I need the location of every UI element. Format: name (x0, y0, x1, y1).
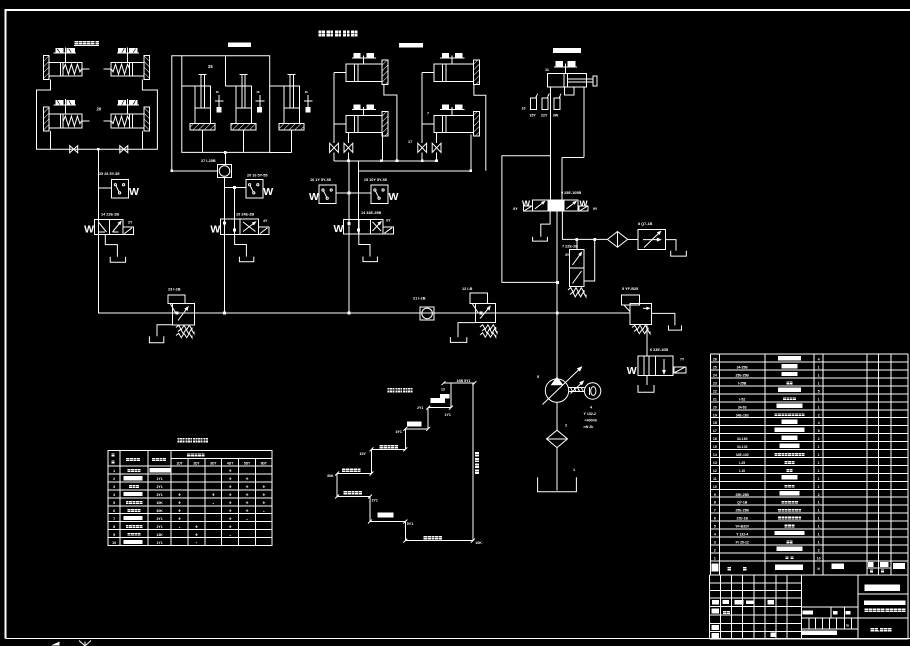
svg-text:2Y1: 2Y1 (156, 525, 162, 529)
svg-text:nN 2k: nN 2k (584, 425, 594, 429)
svg-text:1Y1: 1Y1 (156, 541, 162, 545)
svg-text:21 I-2B: 21 I-2B (413, 297, 426, 301)
svg-text:6: 6 (714, 517, 716, 521)
svg-text:16 1Y 5Y-55: 16 1Y 5Y-55 (310, 178, 331, 182)
svg-text:W: W (627, 365, 637, 377)
svg-text:W: W (580, 199, 589, 209)
svg-text:13K: 13K (156, 533, 163, 537)
svg-text:1Y1: 1Y1 (156, 477, 162, 481)
svg-text:8Y: 8Y (513, 207, 518, 211)
svg-text:1: 1 (818, 509, 820, 513)
svg-text:21: 21 (713, 397, 717, 401)
svg-text:3Y1: 3Y1 (396, 430, 402, 434)
svg-text:+: + (262, 500, 265, 506)
svg-text:2: 2 (113, 477, 115, 481)
svg-text:30K: 30K (327, 474, 334, 478)
svg-text:2Y1: 2Y1 (372, 499, 378, 503)
svg-text:20 16 5Y-55: 20 16 5Y-55 (247, 174, 267, 178)
svg-text:14 22E-2B: 14 22E-2B (101, 213, 119, 217)
svg-text:W: W (309, 191, 319, 203)
svg-text:5: 5 (537, 375, 539, 379)
svg-text:27 I-25B: 27 I-25B (201, 159, 216, 163)
svg-text:W: W (389, 191, 399, 203)
svg-text:1: 1 (818, 366, 820, 370)
svg-text:=400r/h: =400r/h (585, 419, 598, 423)
svg-text:9: 9 (714, 493, 716, 497)
svg-text:1Y1: 1Y1 (445, 413, 451, 417)
svg-text:2: 2 (818, 493, 820, 497)
svg-text:7Y: 7Y (680, 358, 685, 362)
svg-text:18: 18 (713, 421, 717, 425)
svg-text:+: + (246, 492, 249, 498)
svg-text:15 10Y 5Y-55: 15 10Y 5Y-55 (364, 178, 387, 182)
svg-text:+: + (178, 500, 181, 506)
svg-text:Y 132-4: Y 132-4 (736, 533, 748, 537)
svg-text:+: + (195, 532, 198, 538)
svg-text:19 24E-2B: 19 24E-2B (236, 213, 254, 217)
svg-text:10K: 10K (475, 541, 482, 545)
svg-text:6 23E-10B: 6 23E-10B (650, 348, 668, 352)
svg-text:+: + (229, 524, 232, 530)
svg-text:m: m (846, 624, 849, 628)
svg-text:Pr 25-12: Pr 25-12 (736, 540, 749, 544)
svg-text:2Y1: 2Y1 (417, 406, 423, 410)
svg-text:+: + (229, 492, 232, 498)
svg-text:34E-163: 34E-163 (736, 413, 749, 417)
svg-text:22: 22 (713, 389, 717, 393)
svg-text:17: 17 (713, 429, 717, 433)
svg-text:1: 1 (818, 397, 820, 401)
svg-text:+: + (246, 500, 249, 506)
svg-text:W: W (210, 224, 220, 236)
svg-text:1: 1 (818, 540, 820, 544)
svg-text:10: 10 (817, 556, 821, 560)
svg-text:13: 13 (713, 461, 717, 465)
svg-text:+: + (262, 492, 265, 498)
svg-text:Q7-1B: Q7-1B (737, 501, 748, 505)
svg-text:16: 16 (713, 437, 717, 441)
svg-text:14: 14 (713, 453, 717, 457)
svg-text:W: W (84, 224, 94, 236)
svg-text:YF-B32V: YF-B32V (735, 525, 750, 529)
svg-text:11: 11 (545, 68, 549, 72)
svg-text:5DT: 5DT (244, 461, 250, 465)
svg-text:20: 20 (713, 405, 717, 409)
svg-text:17: 17 (408, 140, 412, 144)
svg-text:10Y: 10Y (360, 452, 367, 456)
svg-text:3DT: 3DT (210, 461, 216, 465)
svg-text:I-25B: I-25B (738, 381, 747, 385)
svg-text:4: 4 (113, 493, 115, 497)
svg-text:8: 8 (714, 501, 716, 505)
svg-text:3W: 3W (553, 114, 559, 118)
svg-text:8: 8 (818, 429, 820, 433)
svg-text:+: + (178, 508, 181, 514)
svg-text:3: 3 (714, 540, 716, 544)
svg-text:W: W (129, 186, 139, 198)
svg-text:1DT: 1DT (176, 461, 182, 465)
svg-text:1: 1 (818, 533, 820, 537)
svg-text:+: + (229, 469, 232, 475)
svg-text:3Y: 3Y (565, 253, 570, 257)
svg-text:5: 5 (714, 525, 716, 529)
svg-text:5: 5 (818, 389, 820, 393)
svg-text:20: 20 (97, 107, 102, 112)
svg-text:2: 2 (565, 424, 567, 428)
svg-text:5: 5 (113, 501, 115, 505)
svg-text:4: 4 (818, 421, 820, 425)
svg-text:4Y: 4Y (263, 219, 268, 223)
svg-text:3: 3 (113, 485, 115, 489)
svg-text:2Y: 2Y (128, 221, 133, 225)
svg-text:34-102: 34-102 (737, 445, 748, 449)
svg-text:11: 11 (713, 477, 717, 481)
svg-text:9 25E-105B: 9 25E-105B (561, 191, 582, 195)
svg-text:12: 12 (713, 469, 717, 473)
svg-text:+: + (229, 508, 232, 514)
svg-text:2Y1: 2Y1 (156, 485, 162, 489)
svg-text:1: 1 (818, 477, 820, 481)
svg-text:5 YF-B25: 5 YF-B25 (622, 287, 638, 291)
svg-text:12 I-B: 12 I-B (462, 287, 473, 291)
svg-text:1: 1 (714, 556, 716, 560)
svg-text:9Y: 9Y (593, 207, 598, 211)
svg-text:1: 1 (573, 468, 575, 472)
svg-text:10: 10 (112, 541, 116, 545)
svg-text:1: 1 (818, 453, 820, 457)
svg-text:2: 2 (818, 413, 820, 417)
svg-text:25: 25 (208, 64, 213, 69)
svg-text:15Y: 15Y (529, 114, 536, 118)
svg-text:22Y: 22Y (541, 114, 548, 118)
svg-text:1: 1 (818, 445, 820, 449)
svg-text:1: 1 (818, 525, 820, 529)
svg-text:4: 4 (714, 533, 716, 537)
svg-text:4: 4 (818, 358, 820, 362)
svg-text:7: 7 (113, 517, 115, 521)
svg-text:25E-25B: 25E-25B (736, 374, 750, 378)
svg-text:2: 2 (818, 548, 820, 552)
svg-text:8: 8 (113, 525, 115, 529)
svg-text:8 Q7-1B: 8 Q7-1B (638, 222, 653, 226)
svg-text:3Y1: 3Y1 (156, 517, 162, 521)
svg-text:+: + (246, 484, 249, 490)
svg-text:9: 9 (113, 533, 115, 537)
svg-text:34-63: 34-63 (738, 405, 747, 409)
svg-text:2DT: 2DT (193, 461, 199, 465)
svg-text:I-10: I-10 (739, 469, 745, 473)
svg-text:25E-25B: 25E-25B (736, 493, 750, 497)
svg-text:25 26 5Y-55: 25 26 5Y-55 (99, 172, 119, 176)
svg-text:7: 7 (714, 509, 716, 513)
svg-text:16B 5Y1: 16B 5Y1 (457, 379, 471, 383)
svg-text:+: + (178, 516, 181, 522)
svg-text:+: + (178, 492, 181, 498)
svg-text:W: W (263, 186, 273, 198)
svg-text:7: 7 (427, 112, 429, 116)
svg-text:1: 1 (818, 461, 820, 465)
svg-text:1: 1 (113, 469, 115, 473)
svg-text:23: 23 (713, 381, 717, 385)
svg-text:+: + (246, 508, 249, 514)
svg-text:24: 24 (713, 374, 717, 378)
svg-text:+: + (229, 500, 232, 506)
svg-text:1: 1 (818, 374, 820, 378)
svg-text:+: + (212, 492, 215, 498)
svg-text:6: 6 (113, 509, 115, 513)
svg-text:7 22E-2B: 7 22E-2B (562, 244, 578, 248)
svg-text:I-25: I-25 (739, 461, 745, 465)
svg-text:1: 1 (818, 469, 820, 473)
svg-text:10: 10 (713, 485, 717, 489)
svg-text:30K: 30K (156, 509, 163, 513)
svg-text:34-25B: 34-25B (737, 366, 749, 370)
svg-text:1: 1 (818, 485, 820, 489)
svg-text:10K: 10K (156, 501, 163, 505)
svg-text:19: 19 (713, 413, 717, 417)
svg-text:34E-102: 34E-102 (736, 453, 749, 457)
svg-text:+: + (229, 484, 232, 490)
svg-text:26: 26 (713, 358, 717, 362)
svg-text:1: 1 (818, 405, 820, 409)
svg-text:25: 25 (713, 366, 717, 370)
svg-text:1: 1 (818, 381, 820, 385)
svg-text:+: + (229, 516, 232, 522)
svg-text:2: 2 (714, 548, 716, 552)
svg-text:22E-1B: 22E-1B (736, 517, 748, 521)
svg-text:+: + (246, 476, 249, 482)
svg-text:4DT: 4DT (227, 461, 233, 465)
svg-text:+: + (262, 484, 265, 490)
svg-text:6Y: 6Y (386, 218, 391, 222)
svg-text:W: W (334, 223, 344, 235)
svg-text:Y 132-2: Y 132-2 (584, 412, 597, 416)
svg-text:5Y1: 5Y1 (407, 522, 413, 526)
svg-text:6DT: 6DT (261, 461, 267, 465)
svg-text:1: 1 (818, 517, 820, 521)
svg-text:I-52: I-52 (739, 397, 745, 401)
svg-text:14 34E-25B: 14 34E-25B (361, 211, 382, 215)
svg-text:15: 15 (713, 445, 717, 449)
svg-text:3Y1: 3Y1 (156, 493, 162, 497)
svg-text:25E-25B: 25E-25B (736, 509, 750, 513)
svg-text:2: 2 (818, 437, 820, 441)
svg-text:+: + (229, 476, 232, 482)
svg-text:1: 1 (818, 501, 820, 505)
svg-text:23 I-2B: 23 I-2B (168, 288, 181, 292)
svg-text:13: 13 (441, 388, 445, 392)
svg-text:34-160: 34-160 (737, 437, 748, 441)
svg-text:+: + (195, 524, 198, 530)
svg-text:10: 10 (522, 107, 526, 111)
